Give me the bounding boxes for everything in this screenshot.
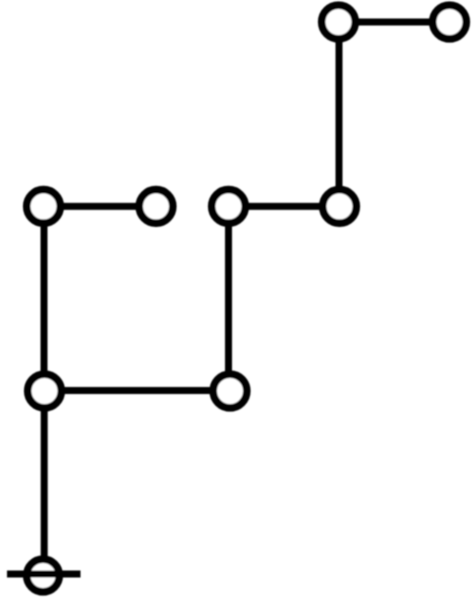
wire node3-node7 vertical xyxy=(41,206,48,391)
node 7 xyxy=(28,374,62,408)
wire node1-node2 top horizontal xyxy=(339,19,450,26)
wire node3-node4 horizontal xyxy=(44,203,157,210)
node 8 xyxy=(213,374,247,408)
wire node5-node8 vertical xyxy=(225,206,232,391)
wire node1-node6 vertical xyxy=(336,22,343,206)
ground terminal bar xyxy=(7,571,81,578)
node 2 xyxy=(433,5,467,39)
node 1 xyxy=(322,5,356,39)
node 5 xyxy=(212,190,246,224)
wire node7-node8 horizontal xyxy=(45,387,231,394)
node 6 xyxy=(323,190,357,224)
node 4 xyxy=(139,190,173,224)
ground terminal circle xyxy=(27,559,60,592)
wire node5-node6 horizontal xyxy=(229,203,340,210)
node 3 xyxy=(27,190,61,224)
wire node7-node9 vertical xyxy=(41,391,48,576)
